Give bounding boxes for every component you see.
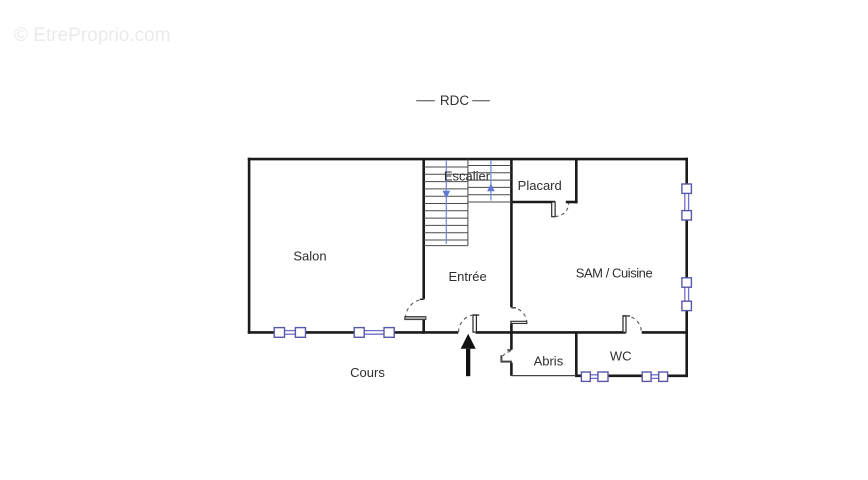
svg-text:© EtreProprio.com: © EtreProprio.com [14,25,171,46]
svg-text:Cours: Cours [350,365,385,380]
svg-text:RDC: RDC [440,93,469,108]
svg-text:Salon: Salon [293,249,326,264]
svg-text:WC: WC [610,349,632,364]
svg-text:Abris: Abris [534,353,564,368]
svg-text:Placard: Placard [518,178,562,193]
svg-text:Entrée: Entrée [448,269,486,284]
svg-text:Escalier: Escalier [444,168,491,183]
svg-text:SAM / Cuisine: SAM / Cuisine [576,265,653,280]
